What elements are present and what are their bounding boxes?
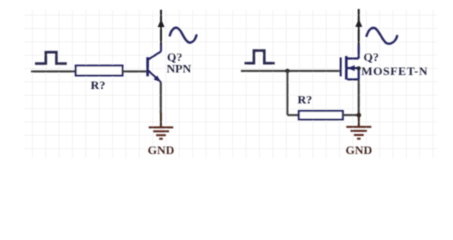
wire: Q1 emitter to ground bbox=[160, 82, 162, 114]
power arrow VCC (right drain supply) bbox=[355, 9, 362, 45]
ground GND (left) bbox=[149, 113, 174, 139]
svg-text:R?: R? bbox=[91, 78, 106, 92]
resistor R2 body bbox=[299, 111, 343, 120]
ground GND (right) bbox=[346, 113, 371, 139]
wire: resistor R1 to Q1 base bbox=[122, 70, 146, 72]
sine squiggle (right output waveform) bbox=[367, 28, 398, 44]
wire: right input to Q2 gate bbox=[241, 70, 340, 72]
sine squiggle (left output waveform) bbox=[170, 28, 197, 43]
svg-text:R?: R? bbox=[298, 92, 313, 106]
pulse input symbol (left) bbox=[35, 52, 67, 63]
wire: Q2 source to ground bbox=[358, 79, 360, 113]
svg-text:GND: GND bbox=[148, 143, 175, 157]
svg-text:Q?: Q? bbox=[364, 50, 379, 64]
wire: left input to resistor R1 bbox=[31, 70, 76, 72]
wire: to R2 left terminal bbox=[287, 114, 298, 116]
svg-text:NPN: NPN bbox=[167, 62, 192, 76]
power arrow VCC (left collector supply) bbox=[158, 10, 165, 45]
junction: R2 return at source/ground node bbox=[357, 113, 362, 118]
resistor R1 body bbox=[76, 66, 123, 76]
svg-text:MOSFET-N: MOSFET-N bbox=[361, 64, 428, 78]
junction: bulk-source tie bbox=[357, 66, 361, 70]
transistor Q1 (NPN) bbox=[148, 45, 161, 82]
transistor Q2 (N-MOSFET) bbox=[341, 45, 359, 80]
pulse input symbol (right) bbox=[245, 51, 275, 64]
wire: junction down to R2 bbox=[286, 71, 288, 115]
wire: R2 right terminal to source node bbox=[343, 114, 359, 116]
junction: gate node to R2 tap bbox=[285, 69, 290, 74]
svg-text:GND: GND bbox=[345, 143, 372, 157]
